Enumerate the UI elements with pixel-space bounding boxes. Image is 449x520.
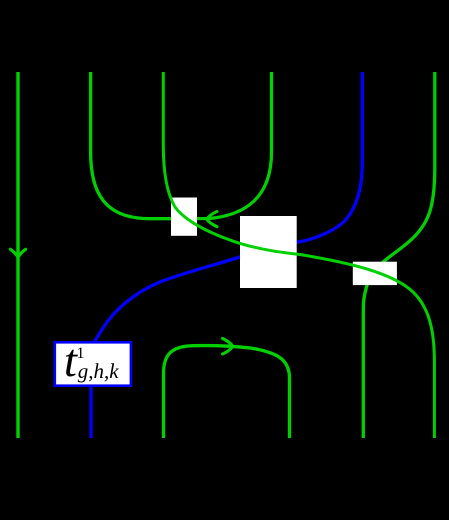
crossing mask box 1 (small, upper-left) bbox=[171, 198, 197, 236]
wire: long green over-strand from top x=163.3 to bottom x=434.4 bbox=[163, 72, 434, 438]
arrowhead: downward on left vertical strand bbox=[10, 249, 25, 257]
wire: green left vertical strand bbox=[16, 72, 19, 438]
crossing mask box 2 (small, right) bbox=[353, 262, 397, 285]
arrowhead: left-pointing on cap strand bbox=[207, 212, 217, 227]
wire: green bottom cup connecting bottom x=163.5 and bottom x=289.5 bbox=[164, 346, 290, 438]
wire: green cap strand connecting top x=90.6 and top x=271.5 (under small box 1) bbox=[91, 72, 272, 219]
morphism box t1_ghk (blue border, white fill) bbox=[55, 342, 131, 385]
label: t^1_{g,h,k} bbox=[64, 338, 77, 385]
arrowhead: right-pointing on bottom cup bbox=[223, 338, 233, 354]
wire: blue strand from top x=362 to t-box and bottom x=91 (under big box) bbox=[91, 72, 362, 438]
wire: green strand A from top x=434.8 to bottom x=363.3 (under small box 2) bbox=[363, 72, 435, 438]
crossing mask box big (center) bbox=[240, 216, 297, 288]
